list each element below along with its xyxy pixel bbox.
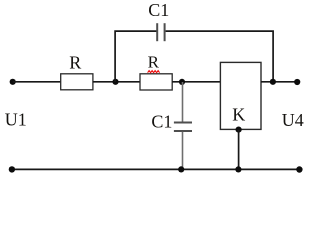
red spellcheck squiggle under R2 label xyxy=(148,71,160,73)
svg-text:U1: U1 xyxy=(5,110,27,130)
wire U1 to R1 xyxy=(13,81,61,83)
node K bottom pin dot xyxy=(236,127,242,133)
resistor R2 xyxy=(140,74,172,90)
node B junction dot after R2 xyxy=(179,79,185,85)
node U1 input terminal dot xyxy=(10,79,16,85)
svg-text:R: R xyxy=(148,52,160,71)
svg-text:K: K xyxy=(232,105,245,125)
node ground-left terminal dot xyxy=(9,166,15,172)
wire K bottom pin to ground rail xyxy=(238,130,240,170)
node U4 output terminal dot xyxy=(294,79,300,85)
wire bottom ground rail xyxy=(12,168,300,170)
node ground junction under K xyxy=(235,166,241,172)
svg-text:U4: U4 xyxy=(282,110,304,130)
node ground-right terminal dot xyxy=(296,166,302,172)
svg-text:C1: C1 xyxy=(148,0,169,20)
node A junction dot after R1 xyxy=(112,79,118,85)
wire top feedback branch right (from C1 across and down to node C) xyxy=(166,31,274,80)
capacitor C1 (top feedback) plates xyxy=(156,23,158,41)
wire top feedback branch left (up from node A and across to C1) xyxy=(115,31,156,82)
wire C1 shunt upper lead (gray) xyxy=(182,82,184,122)
svg-text:C1: C1 xyxy=(151,112,172,132)
block K xyxy=(220,62,261,129)
node ground junction under C1 xyxy=(178,166,184,172)
wire R1 to node A xyxy=(93,81,140,83)
svg-text:R: R xyxy=(69,53,81,73)
node C junction dot right of K xyxy=(270,79,276,85)
resistor R1 xyxy=(61,74,93,90)
wire R2 to K box xyxy=(172,81,220,83)
wire C1 shunt lower lead (gray) xyxy=(182,132,184,170)
wire K box to node C and U4 xyxy=(261,81,297,83)
capacitor C1 (shunt) plates gray xyxy=(174,122,192,124)
